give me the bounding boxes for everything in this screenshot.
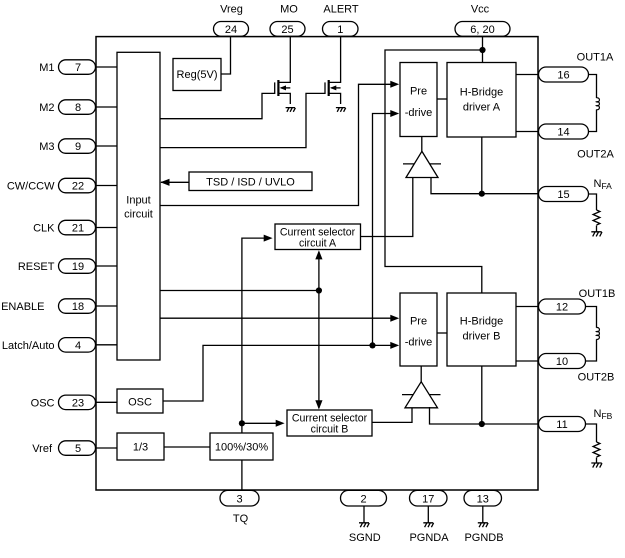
svg-text:Latch/Auto: Latch/Auto [2, 340, 55, 352]
wire H-bridge A bottom to NFA node [481, 137, 483, 194]
svg-text:RESET: RESET [18, 261, 55, 273]
wire comparator B to NFB node [430, 407, 539, 424]
Vcc distribution wire [385, 37, 483, 293]
current selector circuit A [275, 224, 361, 250]
junction oscillator branch [369, 342, 375, 348]
svg-text:Vreg: Vreg [220, 4, 243, 16]
pin 10 OUT2B [539, 354, 586, 369]
svg-text:21: 21 [72, 223, 84, 235]
wire H-bridge B to pin 10 [516, 360, 539, 362]
pin 11 NFB [539, 417, 586, 432]
svg-text:22: 22 [72, 181, 84, 193]
svg-text:Vcc: Vcc [471, 4, 490, 16]
svg-text:OUT2B: OUT2B [578, 372, 615, 384]
wire branch to current selector B with arrow [242, 420, 285, 427]
svg-text:circuit A: circuit A [299, 238, 337, 250]
svg-text:13: 13 [477, 493, 489, 505]
svg-text:OUT1A: OUT1A [577, 52, 614, 64]
pin 3 TQ [220, 490, 259, 506]
TSD/ISD/UVLO block [189, 172, 312, 191]
junction input to selectors [316, 287, 322, 293]
pin 21 CLK [59, 220, 96, 235]
wire pin 13 to ground [482, 506, 484, 523]
ground SGND [359, 523, 369, 527]
svg-text:TSD / ISD / UVLO: TSD / ISD / UVLO [206, 177, 295, 189]
wire pin RESET [96, 265, 118, 267]
wire 100%/30% to pin TQ [241, 460, 243, 490]
comparator B [402, 366, 441, 408]
wire pin M3 [96, 145, 118, 147]
junction NFA [479, 191, 485, 197]
svg-text:OUT1B: OUT1B [579, 288, 616, 300]
svg-text:17: 17 [422, 493, 434, 505]
inductor coil B [596, 328, 599, 340]
pin 18 ENABLE [59, 299, 96, 314]
wire pre-drive A to H-bridge A [437, 98, 447, 100]
current selector circuit B [287, 410, 372, 436]
pin 2 SGND [341, 490, 387, 506]
ground of RNFB [591, 463, 602, 468]
wire pin 2 to ground [363, 506, 365, 523]
svg-text:circuit: circuit [124, 209, 153, 221]
svg-text:Pre: Pre [410, 86, 427, 98]
wire H-bridge B to pin 12 [516, 306, 539, 308]
external sense resistor B wire [586, 424, 597, 463]
svg-text:14: 14 [557, 127, 569, 139]
wire pre-drive B to H-bridge B [437, 332, 447, 334]
wire pin Vref [96, 447, 118, 449]
pin 13 PGNDB [464, 490, 502, 506]
junction TQ line to selector B [239, 420, 245, 426]
svg-text:3: 3 [236, 493, 242, 505]
svg-text:Pre: Pre [410, 316, 427, 328]
svg-text:M3: M3 [39, 141, 54, 153]
wire input circuit to pre-drive A input 1 [160, 81, 399, 206]
svg-text:5: 5 [75, 443, 81, 455]
svg-text:TQ: TQ [233, 513, 249, 525]
pin 22 CW/CCW [59, 178, 96, 193]
wire pin ENABLE [96, 305, 118, 307]
ground of RNFA [591, 232, 602, 237]
wire input circuit to pre-drive B input 1 [160, 315, 399, 322]
pin 24 Vreg [214, 22, 249, 37]
svg-text:H-Bridge: H-Bridge [460, 87, 503, 99]
svg-text:4: 4 [75, 340, 81, 352]
pin 8 M2 [59, 100, 96, 115]
wire pin CW/CCW [96, 185, 118, 187]
pin 25 MO [270, 22, 305, 37]
external motor coil A wire [589, 75, 597, 132]
input circuit block [117, 52, 160, 360]
external sense resistor A wire [589, 194, 597, 232]
svg-text:OSC: OSC [31, 397, 55, 409]
svg-text:M1: M1 [39, 62, 54, 74]
pin 23 OSC [59, 395, 96, 410]
wire H-bridge A to pin 14 [516, 131, 539, 133]
resistor RNFA [593, 210, 600, 225]
wire input circuit to current selectors [160, 250, 323, 409]
wire pin Latch/Auto [96, 344, 118, 346]
svg-text:NFA: NFA [594, 178, 613, 191]
wire oscillator branch to pre-drive A input 2 [373, 110, 400, 345]
svg-text:ENABLE: ENABLE [1, 301, 44, 313]
svg-text:driver A: driver A [463, 102, 501, 114]
svg-text:15: 15 [557, 189, 569, 201]
svg-text:9: 9 [75, 141, 81, 153]
svg-text:11: 11 [556, 419, 567, 431]
pin 16 OUT1A [539, 67, 589, 82]
svg-text:SGND: SGND [349, 532, 381, 544]
svg-text:CW/CCW: CW/CCW [7, 181, 55, 193]
svg-text:driver B: driver B [463, 331, 501, 343]
regulator Reg(5V) [173, 59, 221, 91]
wire current selector A to comparator A [361, 177, 413, 237]
svg-text:16: 16 [557, 70, 569, 82]
transistor Q1 MO output [160, 37, 290, 119]
wire pin M1 [96, 66, 118, 68]
wire 100%/30% to current selector A with arrow [242, 235, 273, 433]
svg-text:-drive: -drive [405, 107, 433, 119]
svg-text:18: 18 [72, 301, 84, 313]
transistor Q2 ALERT output [160, 37, 341, 148]
svg-text:19: 19 [72, 261, 84, 273]
comparator A [403, 137, 441, 178]
svg-text:8: 8 [75, 102, 81, 114]
OSC block [117, 389, 163, 413]
junction NFB [479, 421, 485, 427]
wire 1/3 to 100%/30% [164, 446, 210, 448]
svg-text:M2: M2 [39, 102, 54, 114]
wire current selector B to comparator B [372, 407, 412, 422]
wire H-bridge B bottom to NFB node [481, 366, 483, 424]
svg-text:7: 7 [75, 62, 81, 74]
svg-text:NFB: NFB [594, 408, 613, 421]
svg-text:10: 10 [556, 356, 568, 368]
svg-text:CLK: CLK [33, 223, 55, 235]
svg-text:Reg(5V): Reg(5V) [177, 69, 218, 81]
svg-text:H-Bridge: H-Bridge [460, 316, 503, 328]
svg-text:24: 24 [225, 24, 237, 36]
wire TSD to input circuit with arrow [160, 179, 189, 186]
100%/30% selector block [210, 433, 273, 460]
svg-text:Vref: Vref [32, 443, 53, 455]
1/3 divider block [117, 433, 164, 460]
ground PGNDB [478, 523, 488, 527]
pin 5 Vref [59, 441, 96, 456]
svg-text:circuit B: circuit B [311, 424, 349, 436]
pin 12 OUT1B [539, 299, 586, 314]
junction Vcc [479, 47, 485, 53]
wire pin OSC [96, 401, 118, 403]
wire H-bridge A to pin 16 [516, 74, 539, 76]
H-bridge driver A block [447, 63, 516, 138]
svg-text:Input: Input [126, 195, 150, 207]
svg-text:1/3: 1/3 [133, 442, 148, 454]
pin 6,20 Vcc [455, 22, 510, 37]
svg-text:-drive: -drive [405, 337, 433, 349]
svg-text:MO: MO [280, 4, 298, 16]
pre-drive B block [400, 293, 437, 366]
wire pin24 to Reg(5V) [221, 37, 231, 74]
wire comparator A to NFA node [431, 177, 539, 194]
resistor RNFB [593, 442, 600, 457]
pin 4 Latch/Auto [59, 338, 96, 353]
pin 7 M1 [59, 60, 96, 75]
pin 15 NFA [539, 187, 589, 202]
svg-text:12: 12 [556, 302, 568, 314]
IC outline [96, 37, 538, 490]
pin 14 OUT2A [539, 124, 589, 139]
inductor coil A [596, 98, 599, 110]
wire pin M2 [96, 106, 118, 108]
svg-text:23: 23 [72, 397, 84, 409]
pin 19 RESET [59, 259, 96, 274]
svg-text:2: 2 [360, 493, 366, 505]
svg-text:PGNDB: PGNDB [464, 532, 503, 544]
ground of Q2 [336, 108, 346, 112]
wire pin CLK [96, 227, 118, 229]
ground PGNDA [423, 523, 433, 527]
svg-text:1: 1 [337, 24, 343, 36]
H-bridge driver B block [447, 293, 516, 366]
wire OSC to pre-drive B input 2 [163, 342, 399, 401]
svg-text:100%/30%: 100%/30% [215, 442, 268, 454]
external motor coil B wire [586, 307, 597, 362]
svg-text:6, 20: 6, 20 [470, 24, 494, 36]
svg-text:ALERT: ALERT [323, 4, 359, 16]
svg-text:25: 25 [281, 24, 293, 36]
pin 17 PGNDA [410, 490, 448, 506]
pre-drive A block [400, 63, 437, 137]
pin 9 M3 [59, 139, 96, 154]
ground of Q1 [286, 108, 296, 112]
pin 1 ALERT [323, 22, 359, 37]
svg-text:OSC: OSC [128, 397, 152, 409]
svg-text:PGNDA: PGNDA [409, 532, 449, 544]
wire pin 17 to ground [427, 506, 429, 523]
svg-text:OUT2A: OUT2A [577, 149, 614, 161]
